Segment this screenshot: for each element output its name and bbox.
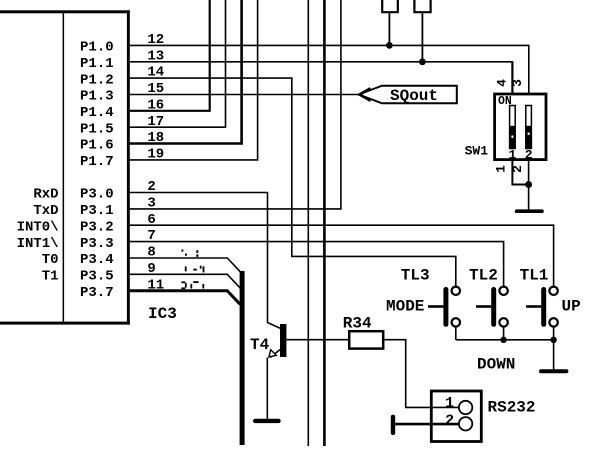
wire SW1 pin 2 to ground — [528, 160, 530, 210]
svg-text:P3.0: P3.0 — [80, 187, 114, 203]
svg-text:1: 1 — [445, 395, 454, 412]
resistor R34 — [349, 331, 383, 348]
wire P1.2 to TL3 — [130, 78, 456, 287]
svg-text:P1.5: P1.5 — [80, 121, 114, 137]
svg-text:TL3: TL3 — [401, 267, 430, 285]
svg-text:TL2: TL2 — [469, 267, 498, 285]
wire TL1 bottom stub — [553, 326, 555, 340]
svg-text:P1.4: P1.4 — [80, 105, 114, 121]
connector J1 (top left) — [381, 0, 399, 45]
junction on P1.1 at J2 — [419, 58, 426, 65]
ground under SW1 — [515, 209, 544, 213]
bus bar for P3.4/P3.5/P3.7 — [240, 271, 245, 445]
svg-text:P1.1: P1.1 — [80, 56, 114, 72]
svg-text:T0: T0 — [42, 252, 59, 268]
wire P1.5 up off page — [130, 0, 226, 127]
svg-text:P3.2: P3.2 — [80, 219, 114, 235]
svg-text:P1.7: P1.7 — [80, 154, 114, 170]
ground under T4 — [253, 419, 281, 423]
svg-text:P3.4: P3.4 — [80, 252, 114, 268]
wire TL3 bottom stub — [455, 326, 457, 340]
wire P1.4 up off page — [130, 0, 210, 111]
svg-text:UP: UP — [562, 298, 581, 316]
switch SW1 DIP body — [495, 94, 546, 163]
wire P1.0 to SW1 pin 3 — [130, 45, 529, 94]
wire P1.3 to SQout flag — [130, 94, 359, 96]
svg-text:P1.6: P1.6 — [80, 138, 114, 154]
connector J2 (top right) — [413, 0, 431, 62]
wire vertical bus line A (full height) — [307, 0, 309, 446]
wire RS232 pin 2 stub — [395, 423, 459, 426]
pushbutton TL3 (MODE) — [428, 287, 460, 327]
tiny faded signal label fragments row P3.7 — [181, 281, 204, 289]
svg-text:IC3: IC3 — [148, 305, 177, 323]
svg-text:P3.7: P3.7 — [80, 285, 114, 301]
junction SW1 common — [525, 181, 532, 188]
svg-text:P3.5: P3.5 — [80, 269, 114, 285]
wire R34 to RS232 pin 1 — [383, 340, 459, 408]
junction on P1.0 at J1 — [386, 42, 393, 49]
svg-text:SQout: SQout — [390, 87, 438, 105]
svg-text:DOWN: DOWN — [477, 356, 515, 374]
svg-text:3: 3 — [510, 79, 525, 87]
svg-text:TxD: TxD — [33, 203, 58, 219]
svg-text:T1: T1 — [42, 269, 59, 285]
svg-text:1: 1 — [494, 165, 509, 173]
svg-text:P1.2: P1.2 — [80, 72, 114, 88]
wire TL2 bottom stub — [503, 326, 505, 340]
wire P3.4 into bus — [130, 258, 240, 272]
IC IC3 (microcontroller body, cropped at left) — [0, 10, 130, 324]
svg-text:INT0\: INT0\ — [17, 219, 59, 235]
junction TL1 bottom — [550, 337, 556, 343]
svg-text:2: 2 — [445, 412, 454, 429]
svg-text:SW1: SW1 — [465, 144, 489, 159]
svg-text:P3.3: P3.3 — [80, 236, 114, 252]
svg-text:INT1\: INT1\ — [17, 236, 59, 252]
junction TL2 bottom — [500, 337, 506, 343]
wire P1.6 up off page (thick) — [130, 0, 242, 144]
wire P1.7 up off page — [130, 0, 258, 160]
connector RS232 body — [431, 391, 481, 442]
svg-text:MODE: MODE — [386, 298, 424, 316]
wire P3.2 to TL1 — [130, 225, 554, 287]
wire P3.5 into bus — [130, 274, 240, 288]
tiny faded signal label fragments row P3.4 — [181, 250, 198, 257]
wire P3.3 to TL2 — [130, 242, 504, 287]
node SQout flag — [359, 86, 457, 106]
svg-text:4: 4 — [495, 79, 510, 87]
wire P3.0 to T4 base — [130, 193, 280, 329]
wire common DOWN net — [456, 340, 554, 370]
wire P1.1 to SW1 pin 4 — [130, 62, 513, 94]
ground under TL1 — [539, 369, 568, 373]
svg-text:P1.0: P1.0 — [80, 40, 114, 56]
wire T4 collector to R34 — [286, 339, 349, 341]
wire vertical bus line B (full height thick) — [323, 0, 326, 446]
svg-text:P3.1: P3.1 — [80, 203, 114, 219]
terminal stub at RS232 pin 2 — [391, 415, 395, 435]
wire P3.1 up off page — [130, 0, 341, 209]
wire SW1 pin 1 to pin 2 net — [512, 160, 528, 185]
transistor T4 — [267, 324, 286, 419]
svg-text:RxD: RxD — [33, 187, 58, 203]
pushbutton TL1 (UP) — [526, 287, 558, 327]
svg-text:RS232: RS232 — [488, 399, 536, 417]
svg-text:R34: R34 — [343, 315, 372, 333]
tiny faded signal label fragments row P3.5 — [185, 266, 205, 273]
svg-text:TL1: TL1 — [520, 267, 549, 285]
wire P3.7 into bus (thick) — [130, 291, 240, 305]
svg-text:T4: T4 — [250, 336, 270, 354]
svg-text:P1.3: P1.3 — [80, 89, 114, 105]
pushbutton TL2 (DOWN) — [476, 287, 508, 327]
